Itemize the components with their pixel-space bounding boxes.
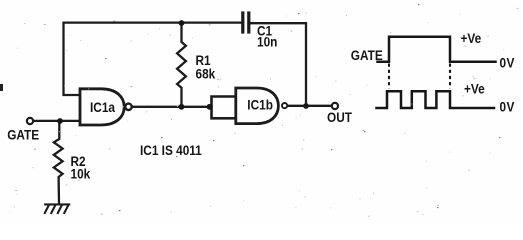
svg-text:+Ve: +Ve [464,81,485,97]
svg-text:10n: 10n [257,34,278,50]
svg-text:IC1 IS 4011: IC1 IS 4011 [140,142,202,158]
svg-text:OUT: OUT [327,109,352,125]
svg-text:+Ve: +Ve [461,30,482,46]
svg-text:10k: 10k [71,165,92,181]
svg-text:IC1a: IC1a [90,99,116,115]
svg-text:GATE: GATE [351,47,383,63]
svg-text:68k: 68k [196,66,217,82]
svg-text:GATE: GATE [7,127,39,143]
svg-text:0V: 0V [500,54,515,70]
svg-text:IC1b: IC1b [247,97,273,113]
svg-text:0V: 0V [500,99,515,115]
